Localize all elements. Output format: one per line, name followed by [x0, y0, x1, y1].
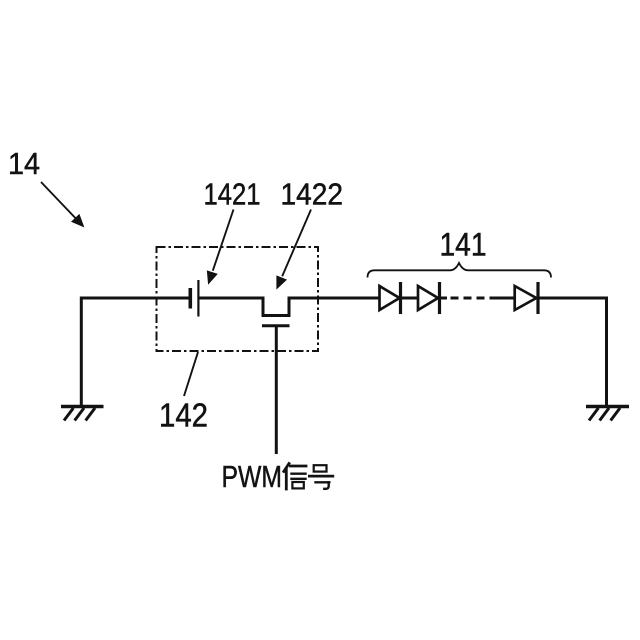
- leader arrow for 1422: [277, 210, 311, 289]
- svg-text:141: 141: [440, 227, 487, 263]
- wire stub after D2: [440, 297, 448, 300]
- leader arrow for 1421: [207, 210, 233, 284]
- wire: left vertical + left horizontal to battery: [81, 298, 189, 406]
- svg-text:1422: 1422: [281, 177, 344, 212]
- diode D3: [515, 282, 538, 314]
- wire: battery to transistor: [198, 297, 264, 300]
- label 信 (glyph strokes): [284, 464, 306, 490]
- transistor 1422: channel: [263, 297, 289, 316]
- wire: D3 to right vertical: [538, 298, 607, 406]
- battery 1421: long plate: [197, 280, 199, 317]
- leader arrow for 14: [41, 182, 84, 227]
- brace 141: [368, 263, 552, 278]
- svg-text:PWM: PWM: [222, 459, 283, 494]
- ground (right): [586, 407, 629, 421]
- ground (left): [61, 407, 104, 421]
- dash-dot box 142: [157, 247, 319, 351]
- transistor 1422: gate bar: [262, 324, 290, 327]
- dashed wire (omitted diodes): [451, 297, 497, 300]
- diode D1: [380, 282, 401, 314]
- svg-text:1421: 1421: [204, 177, 261, 212]
- wire stub before D3: [495, 297, 516, 300]
- svg-text:14: 14: [8, 146, 40, 181]
- transistor 1422: gate lead: [275, 326, 278, 454]
- label 号 (glyph strokes): [309, 465, 332, 489]
- diode D2: [418, 282, 440, 314]
- svg-text:142: 142: [159, 397, 208, 434]
- wire: D1 to D2: [400, 297, 419, 300]
- wire: transistor to diode D1: [289, 297, 380, 300]
- battery 1421: short plate: [189, 288, 193, 309]
- leader line for 142: [184, 352, 198, 396]
